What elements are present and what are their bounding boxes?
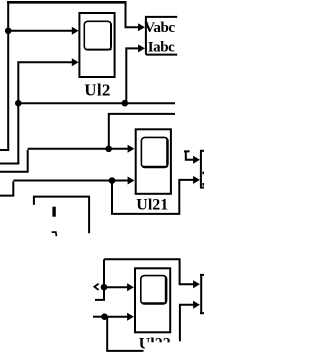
wire L into R1 input 1 xyxy=(184,151,193,159)
arrowhead into R2 input 1 xyxy=(193,280,200,288)
arrowhead into R1 input 1 xyxy=(193,156,200,164)
wire from dot2 down and right along bottom xyxy=(107,317,143,351)
svg-text:Vabc: Vabc xyxy=(144,20,175,36)
wire I from Iabc corner down to bus xyxy=(126,48,140,103)
svg-text:Ul21: Ul21 xyxy=(136,196,168,213)
arrowhead into Ul22 input 2 xyxy=(127,313,134,321)
port tick R1 a xyxy=(202,172,204,175)
wire V into Vabc port xyxy=(126,2,141,28)
arrowhead into Ul2 input 2 xyxy=(72,58,79,66)
wire horizontal y115 with corner down xyxy=(109,114,175,149)
scope block Ul22 xyxy=(135,268,170,332)
wire into Ul22 input 1 xyxy=(104,286,130,288)
wire staircase exiting left at y171.8 xyxy=(0,150,28,172)
wire corner route to R2 input 1 xyxy=(104,259,196,284)
white cover clipping label Ul22 xyxy=(145,342,173,354)
wire into Ul2 input 1 xyxy=(8,30,75,32)
glyph I inside partial rectangle xyxy=(52,207,55,217)
partial block R1 at right edge xyxy=(200,151,204,188)
junction dot d7 xyxy=(101,313,108,320)
wire stub exiting left at y163.5 xyxy=(0,163,19,165)
junction dot d1 xyxy=(5,28,12,35)
partial rectangle block with I xyxy=(34,197,89,234)
arrowhead into Iabc xyxy=(138,44,145,52)
scope block Ul21 xyxy=(136,129,171,194)
wire under-route from dot to R1 input 2 xyxy=(112,180,194,214)
wire vertical up to R2 input 2 xyxy=(180,305,196,342)
partial block R2 at right edge xyxy=(200,275,204,313)
arrowhead into R1 input 2 xyxy=(193,176,200,184)
arrowhead into R2 input 2 xyxy=(193,301,200,309)
arrowhead into Ul21 input 2 xyxy=(128,177,135,185)
wire stub exiting left at y150 xyxy=(0,149,9,151)
hook mark below I xyxy=(52,231,57,236)
svg-text:Ul2: Ul2 xyxy=(84,81,110,100)
junction dot d5 xyxy=(109,177,116,184)
arrowhead into Ul21 input 1 xyxy=(128,145,135,153)
wire into Ul22 input 2 xyxy=(105,316,130,318)
wire vertical down to dot1 and left stub xyxy=(95,259,104,300)
junction dot d6 xyxy=(101,284,108,291)
wire corner into Ul2 input 2 xyxy=(18,62,75,164)
junction dot d2 xyxy=(15,100,22,107)
wire into Ul21 input 2 xyxy=(13,180,130,182)
arrowhead into Ul22 input 1 xyxy=(127,283,134,291)
junction dot d3 xyxy=(122,100,129,107)
wire long horizontal y102.6 xyxy=(18,102,175,104)
junction dot d4 xyxy=(105,146,112,153)
open arrowhead pointing left xyxy=(94,284,98,290)
wire top horizontal xyxy=(7,1,127,4)
three-phase measurement block Vabc Iabc xyxy=(146,16,177,55)
wire stub into dot2 from left xyxy=(93,316,105,318)
wire into Ul21 input 1 xyxy=(28,148,130,150)
svg-text:Iabc: Iabc xyxy=(148,40,175,56)
wire staircase exiting left at y195.6 xyxy=(0,182,13,196)
scope block Ul2 xyxy=(79,13,114,77)
arrowhead into Vabc xyxy=(138,23,145,31)
wire vertical left bus 1 xyxy=(7,2,9,151)
arrowhead into Ul2 input 1 xyxy=(72,27,79,35)
port tick R1 b xyxy=(202,183,204,186)
